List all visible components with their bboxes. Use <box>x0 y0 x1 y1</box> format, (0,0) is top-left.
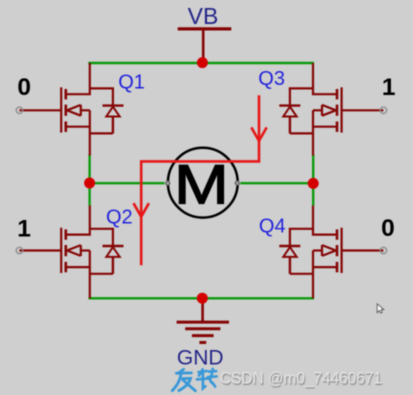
wire right motor branch <box>240 182 313 184</box>
pin terminal of Q3 gate <box>380 107 386 113</box>
transistor Q4 (NMOS with body diode, bottom-right, mirrored) <box>290 206 384 299</box>
wire right column lower segment <box>312 183 314 205</box>
designator Q4 <box>259 215 286 237</box>
pin terminal of Q4 gate <box>380 247 386 253</box>
watermark CSDN <box>220 369 382 388</box>
svg-text:1: 1 <box>382 74 396 101</box>
wire top rail VB to Q1/Q3 drains <box>88 62 314 64</box>
current arrowhead right (downward) <box>251 127 266 140</box>
body diode of Q4 <box>279 246 300 274</box>
caption 反 (drawn strokes) <box>172 369 195 390</box>
body diode of Q1 <box>103 106 124 134</box>
svg-text:CSDN @m0_74460671: CSDN @m0_74460671 <box>220 369 382 388</box>
ground symbol <box>177 298 229 342</box>
motor M circle <box>168 148 238 218</box>
logic level 0 at Q4 gate <box>381 215 395 242</box>
svg-text:1: 1 <box>17 216 31 243</box>
net label GND <box>177 347 224 370</box>
body diode of Q2 <box>103 246 124 274</box>
wire left column upper segment <box>88 155 90 184</box>
power symbol VB <box>178 29 232 63</box>
pin terminal of Q1 gate <box>16 107 22 113</box>
junction dot right column / motor <box>308 178 319 189</box>
wire right column upper segment <box>312 155 314 184</box>
motor right terminal <box>235 181 239 185</box>
logic level 1 at Q3 gate <box>382 74 396 101</box>
svg-text:0: 0 <box>17 74 31 101</box>
designator Q3 <box>258 68 285 90</box>
designator Q2 <box>106 206 133 228</box>
current path arrow polyline <box>141 95 259 265</box>
motor left terminal <box>166 181 170 185</box>
svg-text:Q3: Q3 <box>258 68 285 90</box>
wire left column lower segment <box>88 183 90 206</box>
net label VB <box>188 3 219 29</box>
wire bottom rail GND to Q2/Q4 sources <box>89 297 315 299</box>
junction dot VB / top rail <box>197 57 208 68</box>
wire left motor branch <box>90 182 165 184</box>
svg-text:Q2: Q2 <box>106 206 133 228</box>
mouse cursor <box>377 304 384 313</box>
current arrowhead left (downward) <box>134 203 149 217</box>
body diode of Q3 <box>279 106 300 134</box>
caption 转 (drawn strokes) <box>197 369 217 389</box>
transistor Q3 (NMOS with body diode, top-right, mirrored) <box>290 63 384 156</box>
svg-text:0: 0 <box>381 215 395 242</box>
svg-text:Q4: Q4 <box>259 215 286 237</box>
pin terminal of Q2 gate <box>16 247 22 253</box>
svg-text:GND: GND <box>177 347 224 370</box>
logic level 0 at Q1 gate <box>17 74 31 101</box>
transistor Q1 (NMOS with body diode, top-left) <box>19 63 113 156</box>
logic level 1 at Q2 gate <box>17 216 31 243</box>
svg-text:Q1: Q1 <box>118 71 145 93</box>
designator Q1 <box>118 71 145 93</box>
svg-text:VB: VB <box>188 3 219 29</box>
transistor Q2 (NMOS with body diode, bottom-left) <box>19 206 113 299</box>
junction dot left column / motor <box>84 178 95 189</box>
junction dot GND / bottom rail <box>197 293 208 304</box>
motor letter M <box>174 153 229 215</box>
